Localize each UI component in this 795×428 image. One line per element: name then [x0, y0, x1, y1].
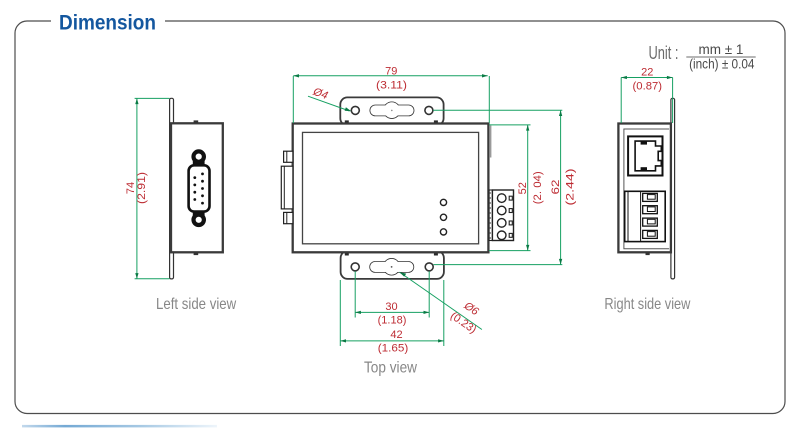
body side shadow	[489, 126, 491, 158]
arrows 74	[135, 98, 138, 104]
dim 52 ext bottom	[489, 250, 531, 252]
dim 42 ext left	[339, 280, 341, 346]
dim 74 ext top	[135, 97, 170, 99]
tab corner feet	[345, 120, 438, 255]
arrows 79	[293, 74, 299, 77]
dim 62 ext top	[433, 109, 562, 111]
dim 62 ext bottom	[434, 264, 563, 266]
LED indicators	[440, 199, 446, 205]
leader dia6	[400, 272, 482, 329]
svg-text:(0.87): (0.87)	[633, 81, 663, 93]
svg-text:Dimension: Dimension	[59, 12, 156, 35]
right view flange	[671, 98, 675, 279]
dim 22 ext left	[620, 78, 622, 124]
dim 74 line	[136, 98, 138, 278]
left view body	[171, 123, 223, 252]
dim 42 line	[340, 340, 444, 342]
bottom tab right hole	[425, 263, 433, 271]
dim 22 ext right	[672, 78, 674, 124]
RJ45 jack (right view)	[628, 136, 662, 175]
svg-text:Left side view: Left side view	[156, 296, 237, 313]
svg-text:(3.11): (3.11)	[376, 80, 407, 92]
svg-text:30: 30	[385, 301, 397, 313]
dimension arrowheads	[135, 74, 672, 342]
dim 30 ext right	[428, 271, 430, 317]
terminal block profile (top view right edge)	[489, 190, 513, 241]
leader dia4	[308, 96, 350, 111]
svg-text:(2.44): (2.44)	[565, 169, 577, 206]
right view bottom screw mark	[646, 252, 650, 255]
bottom gradient bar	[22, 425, 217, 428]
top mounting tab	[340, 97, 443, 125]
serration ticks on terminal strip	[490, 193, 491, 238]
top tab left hole	[351, 106, 359, 114]
arrows 52	[526, 125, 529, 131]
DB9 profile (top view left edge)	[281, 151, 293, 224]
dim 74 ext bottom	[135, 278, 170, 280]
dim 22 line	[621, 77, 672, 79]
svg-text:(1.65): (1.65)	[378, 343, 409, 355]
svg-text:(inch) ± 0.04: (inch) ± 0.04	[689, 56, 755, 71]
arrows 62	[559, 110, 562, 116]
arrows 42	[340, 339, 346, 342]
bottom tab keyhole slot	[370, 259, 413, 275]
top view body	[293, 124, 489, 253]
terminal block (right view)	[625, 191, 666, 241]
svg-text:79: 79	[385, 65, 397, 77]
top view inner panel	[303, 132, 479, 243]
arrow leader dia4	[345, 107, 352, 111]
svg-text:(2. 04): (2. 04)	[532, 171, 544, 204]
bottom mounting tab	[341, 251, 444, 279]
dim 30 ext left	[354, 271, 356, 317]
left view flange	[170, 98, 174, 279]
svg-text:mm ± 1: mm ± 1	[699, 42, 744, 57]
left view bottom screw mark	[194, 253, 199, 256]
arrow leader dia6	[400, 272, 407, 277]
top tab right hole	[425, 106, 433, 114]
svg-text:Right side view: Right side view	[604, 296, 690, 313]
arrows 30	[355, 311, 361, 314]
dim 79 ext right	[488, 76, 490, 123]
right view inner panel	[624, 129, 669, 249]
bottom tab left hole	[351, 263, 359, 271]
left view top screw mark	[194, 120, 199, 123]
dim 52 ext top	[489, 124, 531, 126]
arrows 22	[621, 76, 627, 79]
DB9 connector (left view)	[189, 151, 210, 225]
top tab keyhole slot	[370, 102, 413, 118]
svg-text:74: 74	[125, 182, 137, 194]
svg-text:62: 62	[550, 180, 562, 195]
unit fraction bar	[686, 56, 755, 58]
svg-text:52: 52	[517, 182, 529, 194]
svg-text:(1.18): (1.18)	[378, 314, 407, 326]
right view body	[618, 124, 671, 253]
svg-text:42: 42	[390, 329, 402, 341]
title mask	[51, 13, 165, 30]
svg-text:Ø4: Ø4	[311, 86, 330, 102]
dim 79 line	[293, 75, 487, 77]
svg-text:(2.91): (2.91)	[136, 172, 148, 204]
dim 62 line	[560, 110, 562, 264]
dim 42 ext right	[443, 280, 445, 346]
dim 52 line	[527, 125, 529, 251]
svg-text:Unit :: Unit :	[649, 43, 679, 63]
dim 30 line	[355, 311, 429, 313]
dim 79 ext left	[292, 76, 294, 123]
svg-text:Top view: Top view	[364, 359, 417, 376]
svg-text:22: 22	[641, 66, 653, 78]
